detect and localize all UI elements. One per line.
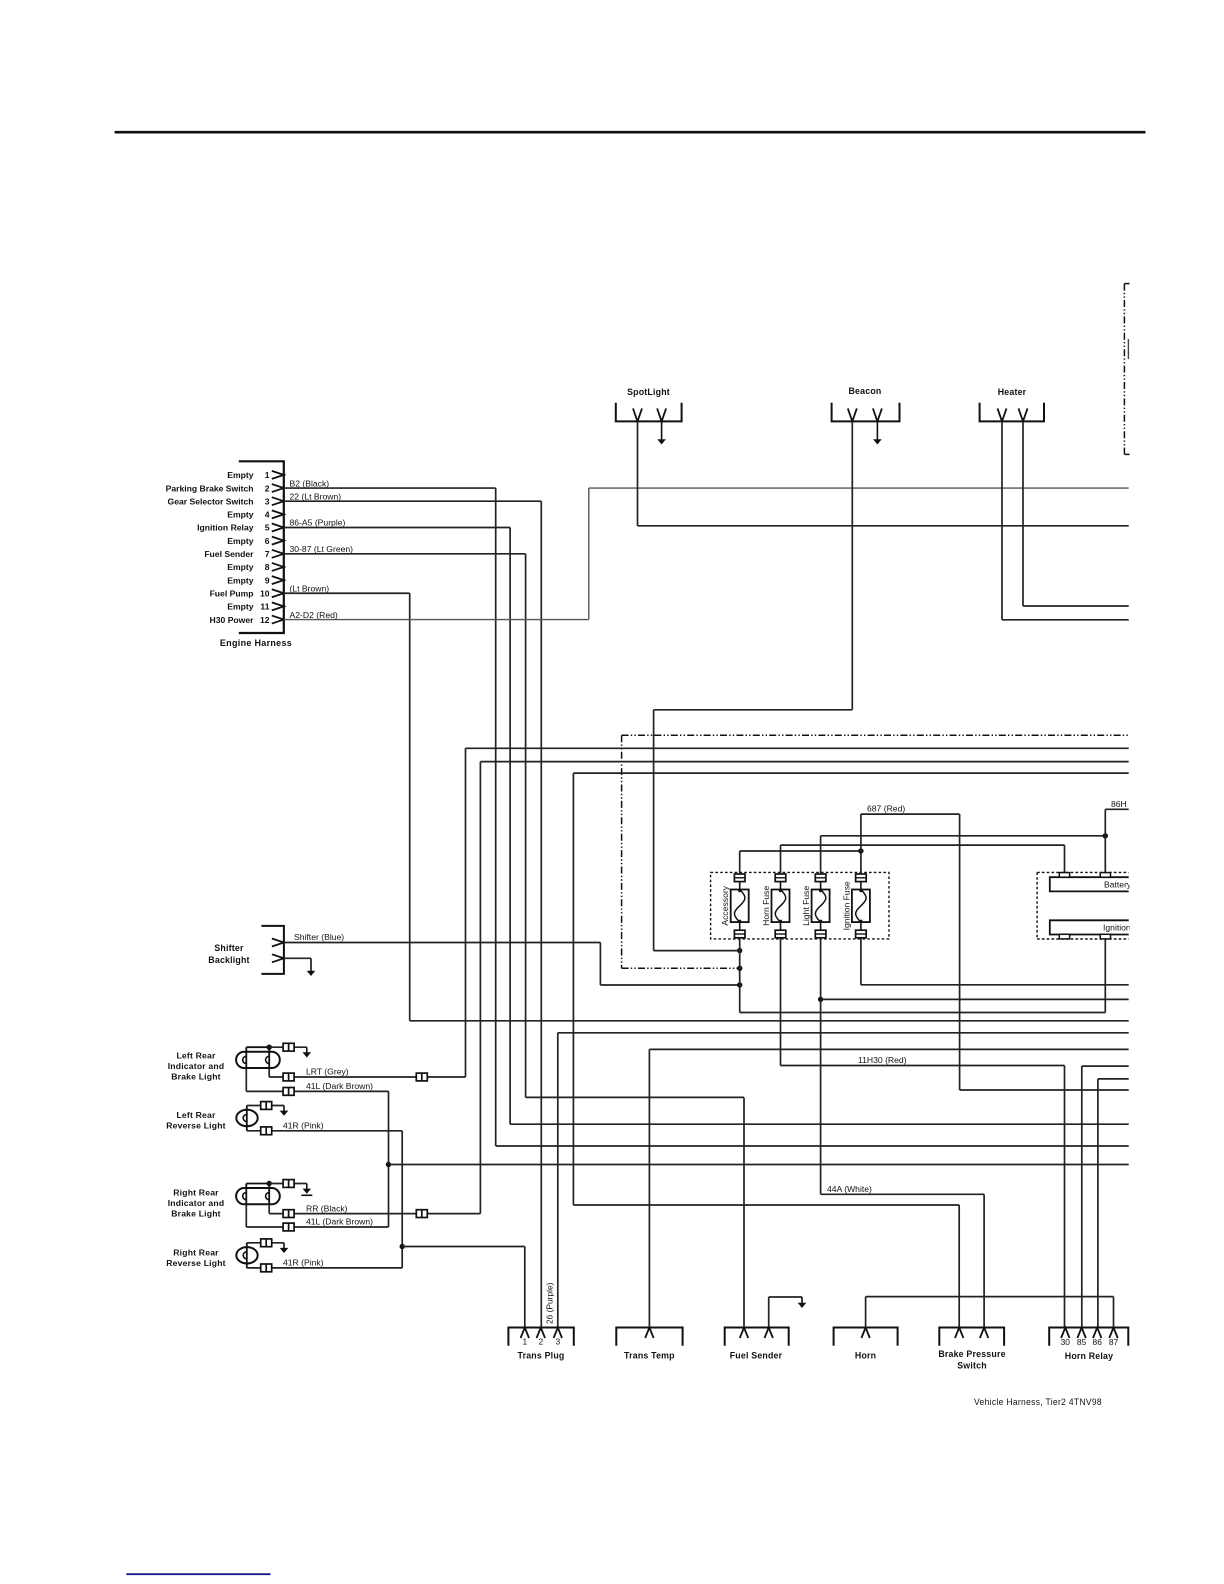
fuse F2 Horn Fuse (775, 874, 786, 882)
svg-text:Horn Relay: Horn Relay (1065, 1351, 1113, 1361)
wire + connector + ground symbol (right brake lamp common) (269, 1183, 307, 1185)
svg-text:12: 12 (260, 615, 270, 625)
wire 687 (Red): Ignition fuse top up, right, down, right to edge (860, 814, 862, 874)
wire A2-D2 (Red): pin12 right, up at x589, right to edge (284, 619, 589, 621)
wire 41R (Pink): down at x402 to right reverse light (247, 1130, 402, 1132)
junction dot (858, 848, 863, 853)
wire 86H (Red): riser up from dot, right to edge (1104, 809, 1106, 872)
fuse box dashed border (711, 872, 889, 939)
svg-text:LRT (Grey): LRT (Grey) (306, 1067, 349, 1077)
wire 44A (White): Light fuse bottom down, branch right to edge, down to Brake Pressure pin2 (820, 938, 822, 1194)
page clip: white margin right of drawing area (1130, 140, 1224, 1584)
fuse F4 Ignition Fuse (856, 874, 867, 882)
wire 86-A5 (Purple): pin5 right, down at x510, right to edge (284, 527, 510, 529)
svg-text:Heater: Heater (998, 387, 1027, 397)
wire LRT (Grey): lamp right, up at x465, right to edge (268, 1068, 270, 1077)
wire 41R (Pink) right lamp (247, 1267, 402, 1269)
connector: Fuel Sender (725, 1328, 789, 1346)
wire + connector + ground arrow (left brake lamp common) (269, 1046, 307, 1048)
wire (Lt Brown): pin10 right, down at x410, right to edge (284, 592, 410, 594)
svg-text:44A (White): 44A (White) (827, 1184, 872, 1194)
svg-text:10: 10 (260, 588, 270, 598)
wire 11H30 (Red): Horn fuse bottom down, right, down to Horn Relay 30 (780, 938, 782, 1066)
svg-text:86H: 86H (1111, 799, 1127, 809)
svg-text:Switch: Switch (957, 1361, 987, 1371)
connector: Battery (clipped) (1050, 877, 1129, 891)
connector: Brake Pressure Switch (939, 1328, 1004, 1346)
svg-text:Fuel Sender: Fuel Sender (730, 1351, 783, 1361)
ground arrow: Beacon pin2 (876, 421, 878, 440)
ground arrow: SpotLight pin2 (661, 421, 663, 440)
svg-text:Reverse Light: Reverse Light (166, 1258, 225, 1268)
fuse F1 Accessory (734, 874, 745, 882)
wire: Horn relay 86 from right edge (1098, 1078, 1129, 1080)
svg-text:87: 87 (1109, 1337, 1119, 1347)
svg-text:Light Fuse: Light Fuse (801, 886, 811, 926)
svg-text:Brake Light: Brake Light (171, 1072, 220, 1082)
junction dot (400, 1244, 405, 1249)
connector: Trans Temp (616, 1328, 682, 1346)
svg-text:(Lt Brown): (Lt Brown) (290, 583, 330, 593)
svg-text:Empty: Empty (227, 575, 253, 585)
wire: Accessory top to junction with Ignition-fuse riser (739, 851, 741, 874)
svg-text:Battery: Battery (1104, 880, 1132, 890)
wire: branch to Trans Plug pin1 (402, 1246, 525, 1248)
connector: Horn Relay (1049, 1328, 1128, 1346)
svg-text:Empty: Empty (227, 510, 253, 520)
connector: Horn (834, 1328, 898, 1346)
svg-text:Ignition Relay: Ignition Relay (197, 523, 254, 533)
junction dot (737, 948, 742, 953)
wire 22 (Lt Brown): pin3 right, down to Trans Plug pin2 (284, 500, 542, 502)
svg-text:Ignition Fuse: Ignition Fuse (841, 881, 851, 930)
svg-text:Beacon: Beacon (849, 386, 882, 396)
wire + connector + ground arrow (left reverse top) (247, 1105, 284, 1107)
svg-text:6: 6 (265, 536, 270, 546)
svg-text:Backlight: Backlight (208, 955, 249, 965)
svg-text:11H30 (Red): 11H30 (Red) (858, 1055, 907, 1065)
dash-dot wire: from right edge, down at x622, to fuse bus dot (622, 734, 1129, 736)
svg-text:3: 3 (555, 1337, 560, 1347)
svg-text:687 (Red): 687 (Red) (867, 804, 905, 814)
svg-text:Indicator and: Indicator and (168, 1061, 225, 1071)
wire: Light fuse top right to Battery pin2 riser (820, 836, 822, 874)
svg-text:1: 1 (522, 1337, 527, 1347)
wire: Beacon pin1 down, left, down to fuse area (851, 421, 853, 709)
wire 26 (Purple): from right edge, down at x558 to Trans Plug pin3 (558, 1032, 1129, 1034)
svg-text:11: 11 (260, 602, 269, 612)
svg-text:9: 9 (265, 575, 270, 585)
svg-text:1: 1 (265, 470, 270, 480)
svg-text:7: 7 (265, 549, 270, 559)
connector: Trans Plug (508, 1328, 573, 1346)
fuse F3 Light Fuse (815, 874, 826, 882)
svg-text:Horn Fuse: Horn Fuse (761, 886, 771, 926)
svg-text:86-A5 (Purple): 86-A5 (Purple) (290, 518, 346, 528)
wire 41L (Dark Brown) left lamp: down at x388, dot, right to edge (245, 1068, 247, 1091)
svg-text:Gear Selector Switch: Gear Selector Switch (168, 496, 254, 506)
clipped wire stub at right edge (1127, 339, 1129, 359)
wire 30-87 (Lt Green): pin7 right, down at x526, right, down to Fuel Sender pin1 (284, 553, 526, 555)
svg-text:22 (Lt Brown): 22 (Lt Brown) (290, 491, 342, 501)
top horizontal rule (115, 131, 1146, 134)
svg-text:5: 5 (265, 523, 270, 533)
bottom-left blue footer line (126, 1573, 270, 1575)
wire: from right edge, down at x649 to Trans Temp pin (649, 1048, 1128, 1050)
wire RR (Black): lamp right, up at x480, right to edge (268, 1204, 270, 1213)
wire + connector + ground arrow (right reverse top) (247, 1242, 284, 1244)
wire: Ignition fuse bottom down, right to edge (860, 938, 862, 985)
svg-text:Parking Brake Switch: Parking Brake Switch (166, 483, 254, 493)
junction dot (818, 997, 823, 1002)
wire B2 (Black): pin2 right, down at x496, right to edge (284, 487, 496, 489)
wire: Fuel Sender pin2 up, right, ground arrow (768, 1297, 770, 1328)
svg-text:Fuel Sender: Fuel Sender (204, 549, 254, 559)
svg-text:41L (Dark Brown): 41L (Dark Brown) (306, 1081, 373, 1091)
battery box dashed border (clipped at right) (1037, 871, 1129, 873)
svg-text:Vehicle Harness, Tier2 4TNV98: Vehicle Harness, Tier2 4TNV98 (974, 1397, 1102, 1407)
svg-text:Reverse Light: Reverse Light (166, 1121, 225, 1131)
junction dot (1103, 833, 1108, 838)
svg-text:86: 86 (1093, 1337, 1103, 1347)
svg-text:3: 3 (265, 496, 270, 506)
svg-text:Empty: Empty (227, 602, 253, 612)
svg-text:Trans Plug: Trans Plug (518, 1351, 565, 1361)
junction dot (737, 982, 742, 987)
svg-text:B2 (Black): B2 (Black) (290, 478, 330, 488)
svg-text:41L (Dark Brown): 41L (Dark Brown) (306, 1217, 373, 1227)
connector: Ignition (clipped) (1050, 920, 1129, 934)
svg-text:Horn: Horn (855, 1351, 876, 1361)
wire: Heater pin1 down, right to edge (1001, 421, 1003, 619)
junction dot (267, 1181, 272, 1186)
svg-text:2: 2 (265, 483, 270, 493)
svg-text:Empty: Empty (227, 562, 253, 572)
svg-text:Shifter: Shifter (214, 943, 244, 953)
svg-text:Brake Light: Brake Light (171, 1209, 220, 1219)
svg-text:Indicator and: Indicator and (168, 1198, 225, 1208)
svg-text:SpotLight: SpotLight (627, 387, 670, 397)
svg-text:Trans Temp: Trans Temp (624, 1351, 675, 1361)
wire: SpotLight pin1 down, right to edge (637, 421, 639, 525)
wire: Horn pin up, right to Horn Relay 87 (865, 1297, 867, 1328)
connector: Engine Harness bracket (239, 461, 284, 633)
wire: Horn fuse top right to Battery pin1 (780, 845, 782, 874)
svg-text:85: 85 (1077, 1337, 1087, 1347)
junction dot (386, 1162, 391, 1167)
svg-text:A2-D2 (Red): A2-D2 (Red) (290, 610, 338, 620)
svg-text:Brake Pressure: Brake Pressure (938, 1349, 1005, 1359)
svg-text:H30 Power: H30 Power (210, 615, 255, 625)
wire: Horn relay 85 from right edge (1082, 1065, 1129, 1067)
svg-text:Right Rear: Right Rear (173, 1248, 219, 1258)
junction dot (737, 966, 742, 971)
svg-text:26 (Purple): 26 (Purple) (545, 1282, 555, 1324)
svg-text:Shifter (Blue): Shifter (Blue) (294, 932, 344, 942)
svg-text:RR (Black): RR (Black) (306, 1203, 348, 1213)
wire: Heater pin2 down, right to edge (1022, 421, 1024, 606)
svg-text:30: 30 (1061, 1337, 1071, 1347)
wire Shifter (Blue): pin1 right, down, right to fuse bus dot (284, 942, 601, 944)
svg-text:Fuel Pump: Fuel Pump (210, 588, 254, 598)
svg-text:Empty: Empty (227, 470, 253, 480)
svg-text:4: 4 (265, 510, 270, 520)
dash-dot harness boundary (top-right, clipped) (1123, 284, 1125, 455)
svg-text:Left Rear: Left Rear (176, 1110, 216, 1120)
svg-text:Left Rear: Left Rear (176, 1051, 216, 1061)
svg-text:41R (Pink): 41R (Pink) (283, 1121, 324, 1131)
svg-text:30-87 (Lt Green): 30-87 (Lt Green) (290, 544, 354, 554)
wire: brake-pressure feed from right edge, down x573, right, down to Brake Pressure pin1 (573, 772, 1128, 774)
ground arrow: Shifter pin2 (284, 957, 311, 959)
wire: Accessory bottom bus down, right to Ignition connector pin (739, 938, 741, 1013)
svg-text:2: 2 (538, 1337, 543, 1347)
svg-text:Engine Harness: Engine Harness (220, 638, 292, 648)
svg-text:Accessory: Accessory (720, 885, 730, 925)
svg-text:8: 8 (265, 562, 270, 572)
svg-text:41R (Pink): 41R (Pink) (283, 1258, 324, 1268)
svg-text:Ignition: Ignition (1103, 923, 1131, 933)
svg-text:Empty: Empty (227, 536, 253, 546)
wire 41L (Dark Brown) right lamp (245, 1204, 247, 1227)
svg-text:Right Rear: Right Rear (173, 1188, 219, 1198)
junction dot (267, 1045, 272, 1050)
